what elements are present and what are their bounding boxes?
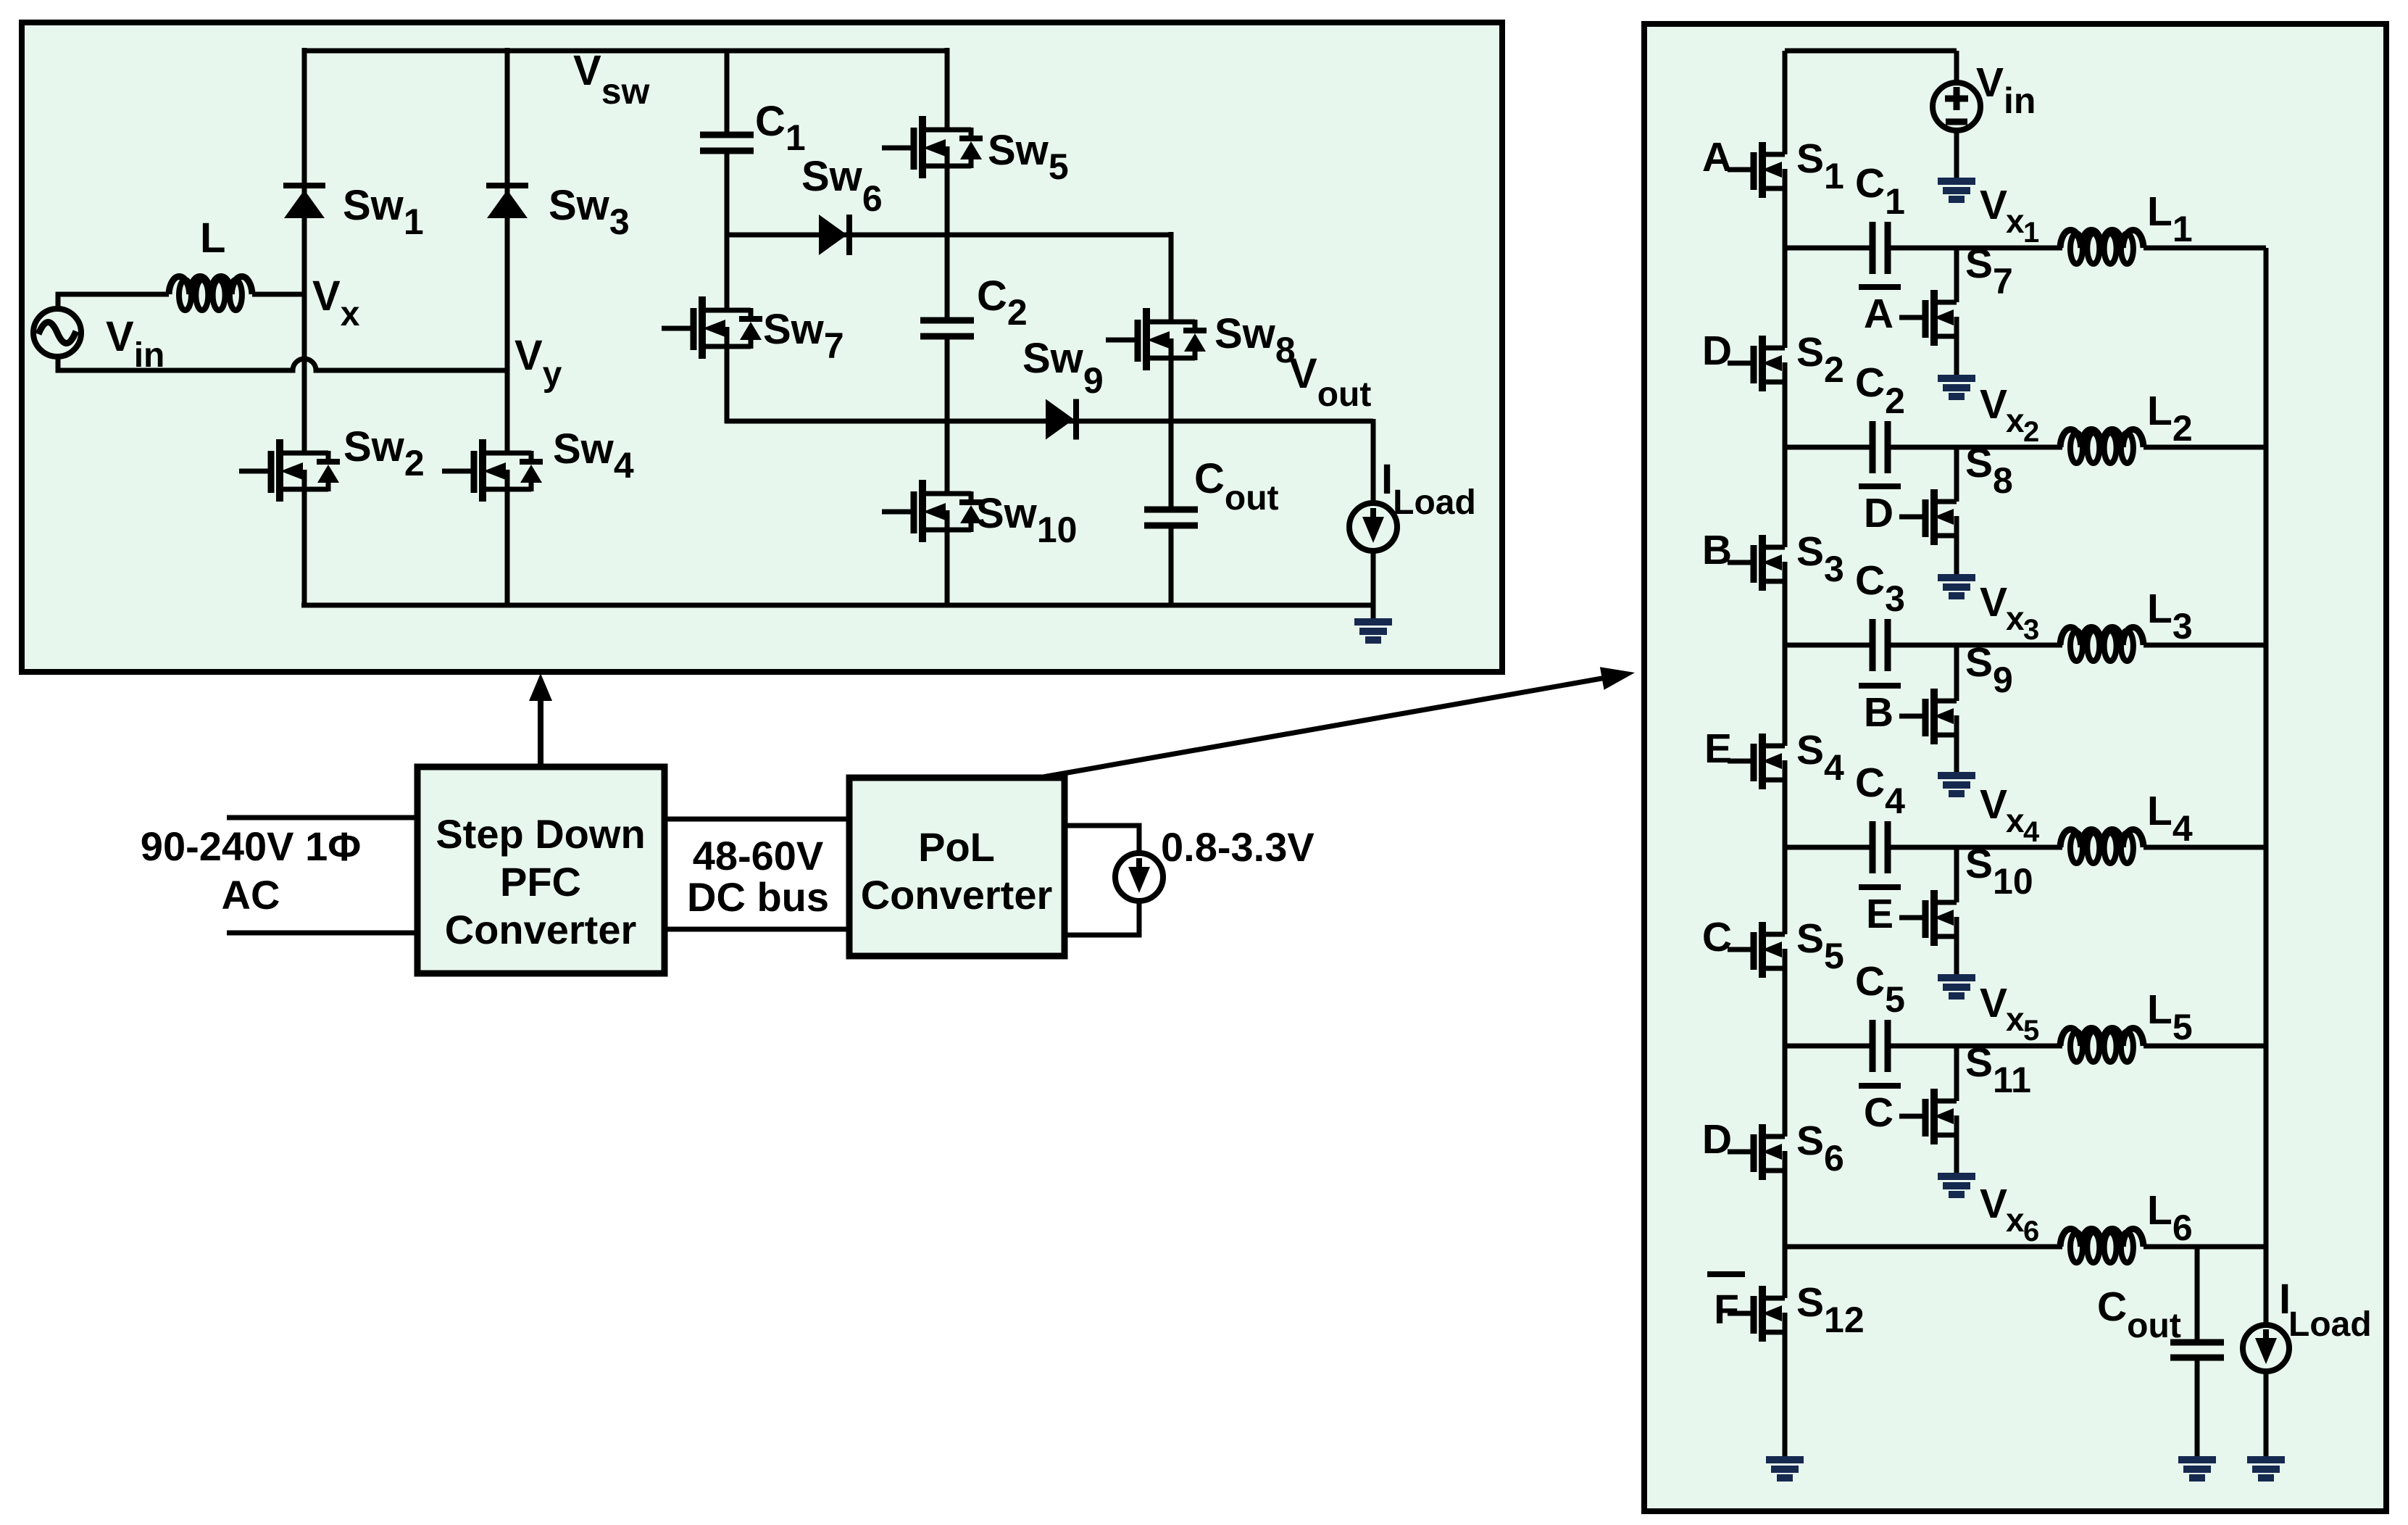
transistor S9: [1899, 689, 1957, 744]
wire L2 to output bus: [2144, 445, 2266, 450]
wire S8 drain: [1954, 447, 1959, 502]
wire Cout leg: [1169, 419, 1174, 508]
voltage source Vin: [1933, 83, 1980, 130]
ground S7 source: [1938, 378, 1975, 396]
wire Vin bottom with hop over leg1: [58, 356, 507, 370]
wire phase row 1: [1785, 246, 1873, 251]
svg-text:6: 6: [2023, 1216, 2039, 1247]
svg-text:V: V: [1980, 980, 2007, 1026]
ground S9 source: [1938, 776, 1975, 794]
AC source Vin: [33, 309, 81, 357]
capacitor C5: [1872, 1020, 1888, 1072]
ground Vin: [1938, 181, 1975, 199]
svg-text:V: V: [1980, 381, 2007, 428]
transistor Sw4: [442, 439, 543, 502]
wire L6 to output bus: [2144, 1244, 2266, 1250]
diode Sw6: [819, 215, 849, 255]
transistor S8: [1899, 489, 1957, 545]
svg-text:0.8-3.3V: 0.8-3.3V: [1161, 824, 1315, 870]
transistor S5: [1728, 922, 1785, 978]
svg-text:V: V: [1980, 781, 2007, 828]
capacitor C2: [920, 320, 974, 336]
wire top rail: [1785, 49, 1957, 54]
current source PoL load: [1115, 853, 1163, 901]
transistor Sw2: [239, 439, 340, 502]
svg-text:x: x: [2006, 802, 2025, 839]
wire PoL output bottom: [1063, 900, 1139, 935]
svg-text:A: A: [1702, 134, 1732, 180]
ground left leg: [1766, 1460, 1804, 1478]
svg-text:x: x: [2006, 1201, 2025, 1239]
wire PoL output top: [1063, 826, 1139, 854]
wire AC input top: [227, 815, 419, 820]
gate label E bar: [1859, 884, 1901, 890]
transistor S4: [1728, 734, 1785, 789]
transistor S10: [1899, 890, 1957, 946]
transistor S11: [1899, 1089, 1957, 1144]
svg-text:x: x: [2006, 202, 2025, 240]
wire leg2 upper: [505, 48, 510, 452]
wire phase row 5: [1785, 1044, 1873, 1049]
svg-text:D: D: [1864, 490, 1894, 536]
svg-text:E: E: [1704, 726, 1732, 772]
svg-text:3: 3: [2023, 614, 2039, 646]
wire output bus: [2264, 248, 2269, 1326]
ground S11 source: [1938, 1176, 1975, 1194]
svg-text:L: L: [200, 215, 225, 262]
wire leg2 lower: [505, 489, 510, 607]
wire left leg segments: [1783, 51, 1788, 154]
ground output: [1354, 622, 1392, 640]
current source ILoad: [1349, 503, 1397, 551]
transistor S7: [1899, 290, 1957, 346]
ground S8 source: [1938, 578, 1975, 596]
svg-text:x: x: [2006, 599, 2025, 637]
wire Sw7 leg upper: [725, 232, 730, 310]
gate label C bar: [1859, 1083, 1901, 1089]
svg-text:4: 4: [2023, 816, 2040, 848]
svg-text:D: D: [1702, 328, 1732, 374]
wire phase row 4: [1785, 845, 1873, 850]
wire leg1 lower: [302, 489, 307, 607]
block PoL Converter: [849, 778, 1065, 956]
wire Sw7 leg lower: [725, 346, 730, 423]
gate label A bar: [1859, 284, 1901, 290]
svg-text:D: D: [1702, 1116, 1732, 1163]
transistor Sw7: [662, 296, 762, 359]
capacitor C1: [1872, 222, 1888, 274]
transistor S1: [1728, 142, 1785, 198]
wire phase row 3: [1785, 643, 1873, 648]
capacitor Cout: [1144, 510, 1198, 525]
svg-text:V: V: [1980, 1181, 2007, 1227]
svg-text:AC: AC: [222, 872, 280, 918]
wire Cout stub: [2195, 1247, 2200, 1341]
transistor S12: [1728, 1286, 1785, 1342]
wire S8 source: [1954, 536, 1959, 576]
diode Sw9: [1046, 399, 1076, 440]
svg-text:C: C: [1702, 914, 1732, 960]
svg-text:Converter: Converter: [861, 872, 1053, 918]
PFC converter detail box: [22, 22, 1502, 672]
wire ILoad lower: [2264, 1370, 2269, 1458]
svg-text:1: 1: [2023, 217, 2039, 249]
wire S9 source: [1954, 735, 1959, 774]
ground ILoad: [2247, 1460, 2285, 1478]
wire Vout row: [725, 419, 1373, 424]
arrow PoL to multiphase box: [1035, 678, 1606, 778]
wire ILoad leg: [1371, 419, 1376, 502]
wire S10 source: [1954, 936, 1959, 976]
inductor L: [169, 277, 252, 294]
svg-text:Load: Load: [2288, 1305, 2372, 1344]
wire leg1 upper: [302, 48, 307, 452]
svg-text:PFC: PFC: [500, 859, 581, 905]
transistor S3: [1728, 535, 1785, 591]
svg-text:C: C: [1864, 1089, 1894, 1136]
wire L1 to output bus: [2144, 246, 2266, 251]
svg-text:A: A: [1864, 291, 1894, 337]
inductor L4: [2060, 830, 2144, 847]
svg-text:Converter: Converter: [445, 907, 637, 952]
inductor L1: [2060, 230, 2144, 248]
inductor L5: [2060, 1029, 2144, 1046]
svg-text:V: V: [1980, 182, 2007, 228]
wire Sw6 row: [727, 233, 1171, 238]
current source ILoad: [2243, 1325, 2289, 1371]
transistor S2: [1728, 336, 1785, 391]
capacitor C3: [1872, 619, 1888, 671]
wire Sw5 leg segments: [945, 48, 950, 130]
svg-text:90-240V 1Φ: 90-240V 1Φ: [141, 823, 361, 869]
capacitor C1: [700, 135, 754, 151]
block Step Down PFC Converter: [417, 767, 665, 973]
gate label F bar: [1707, 1271, 1745, 1277]
wire AC input bottom: [227, 931, 419, 936]
wire C1 leg upper: [725, 51, 730, 133]
wire top rail Vsw: [304, 49, 947, 54]
svg-text:B: B: [1702, 527, 1732, 573]
wire L4 to output bus: [2144, 845, 2266, 850]
wire S11 source: [1954, 1135, 1959, 1175]
svg-text:5: 5: [2023, 1015, 2039, 1047]
arrow PFC to detail box: [538, 697, 543, 767]
inductor L6: [2060, 1229, 2144, 1247]
transistor Sw5: [882, 116, 983, 178]
wire phase row 2: [1785, 445, 1873, 450]
transistor S6: [1728, 1124, 1785, 1180]
wire S7 source: [1954, 336, 1959, 377]
diode Sw3: [486, 186, 528, 218]
gate label D bar: [1859, 483, 1901, 489]
svg-text:V: V: [1980, 579, 2007, 626]
wire Vin stubs: [1954, 51, 1959, 86]
transistor Sw8: [1106, 308, 1207, 370]
svg-text:2: 2: [2023, 416, 2039, 448]
svg-text:48-60V: 48-60V: [693, 833, 824, 878]
svg-text:F: F: [1714, 1287, 1739, 1333]
wire L3 to output bus: [2144, 643, 2266, 648]
wire S10 drain: [1954, 847, 1959, 902]
inductor L2: [2060, 430, 2144, 447]
wire S11 drain: [1954, 1046, 1959, 1101]
capacitor C2: [1872, 421, 1888, 473]
capacitor Cout: [2170, 1342, 2224, 1358]
gate label B bar: [1859, 683, 1901, 689]
ground Cout: [2178, 1460, 2216, 1478]
wire Sw8 leg: [1169, 232, 1174, 322]
svg-text:DC bus: DC bus: [687, 874, 829, 920]
capacitor C4: [1872, 821, 1888, 873]
svg-text:E: E: [1866, 891, 1894, 937]
wire inductor to Vx: [252, 292, 307, 297]
diode Sw1: [283, 186, 325, 218]
svg-text:Step Down: Step Down: [436, 811, 645, 857]
wire DC bus top: [663, 817, 851, 822]
wire C1 leg lower: [725, 151, 730, 235]
wire S7 drain: [1954, 248, 1959, 302]
wire L5 to output bus: [2144, 1044, 2266, 1049]
wire DC bus bottom: [663, 927, 851, 932]
PoL multiphase converter detail box: [1644, 24, 2386, 1511]
inductor L3: [2060, 628, 2144, 645]
transistor Sw10: [882, 480, 983, 542]
svg-text:x: x: [2006, 402, 2025, 439]
svg-text:PoL: PoL: [918, 824, 995, 870]
svg-text:B: B: [1864, 689, 1894, 736]
wire Vin top to inductor: [58, 294, 169, 309]
wire phase row 6: [1785, 1244, 2062, 1250]
wire S9 drain: [1954, 645, 1959, 701]
svg-text:x: x: [2006, 1000, 2025, 1038]
ground S10 source: [1938, 978, 1975, 996]
wire bottom rail: [301, 603, 1373, 608]
